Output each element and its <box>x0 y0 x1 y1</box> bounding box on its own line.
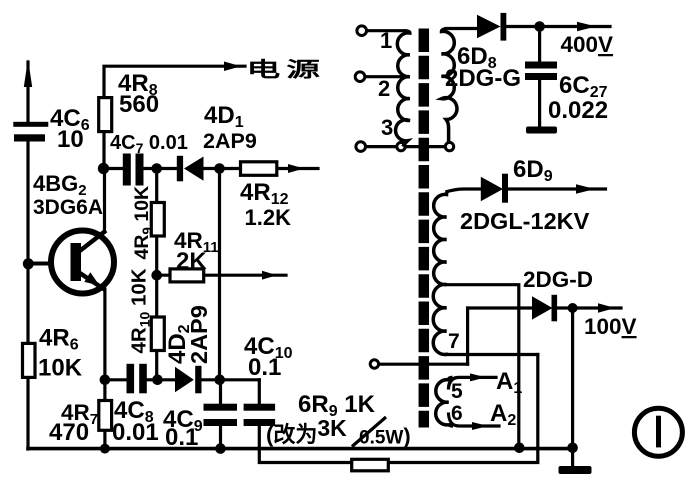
capacitor 4C8 plates <box>127 364 135 394</box>
wire 4D2 to node x219 <box>201 378 220 381</box>
resistor 4R12 1.2K <box>241 162 277 176</box>
svg-text:100V: 100V <box>584 314 637 339</box>
junction 100V node <box>568 303 578 313</box>
capacitor 4C10 plates <box>244 404 276 411</box>
wire riser x467.6 up to 2DG-D row <box>466 308 469 364</box>
svg-text:2: 2 <box>378 76 390 101</box>
wire node x219 to 4C10 top <box>220 378 260 381</box>
wire 6C27 stem top <box>538 27 541 62</box>
capacitors <box>13 62 557 427</box>
svg-text:5: 5 <box>451 380 463 403</box>
diode 6D8 (points right) <box>477 15 501 39</box>
resistor 6R9 <box>352 459 389 471</box>
resistor 4R11 2K <box>170 269 204 282</box>
arrow 电源 (power rail) <box>224 62 241 72</box>
wire 6D9 row right with arrow <box>508 187 606 190</box>
arrow 6D9 output <box>576 184 595 193</box>
wire 4C7 to node x156 <box>141 167 157 170</box>
wire terminal circle to riser x467.6 <box>379 363 468 366</box>
junction node 4C7/4R9 <box>151 163 162 174</box>
wire 4R12 output with arrow <box>277 167 319 170</box>
transformer windings <box>396 29 457 426</box>
terminal small circle mid <box>370 360 378 368</box>
resistors (white body, thick border) <box>23 98 389 471</box>
arrow up at top of left wire <box>24 59 32 87</box>
arrow 4R12 output <box>288 164 304 173</box>
svg-text:0.1: 0.1 <box>165 424 198 451</box>
wire left vertical bottom (4R6 to bus) <box>26 377 29 449</box>
wire t3 lead to winding bottoms <box>366 145 450 148</box>
wire emitter vertical <box>103 289 106 400</box>
wire collector vertical <box>103 169 106 233</box>
wire t2 lead <box>365 75 404 78</box>
junction node 4D1/4R12 <box>214 163 225 174</box>
wire node column x156 segments <box>155 169 158 204</box>
slash in (改为3K/0.5W) <box>352 417 386 447</box>
svg-text:2K: 2K <box>176 248 207 275</box>
arrow 100V output <box>598 303 615 312</box>
wire row y380: emitter node to 4C8 <box>105 378 127 381</box>
junction ring secondary bottom <box>445 142 453 150</box>
svg-text:1.2K: 1.2K <box>245 205 292 230</box>
wire base lead <box>28 262 51 266</box>
wire 4R11 row <box>157 274 171 277</box>
svg-text:4C7 0.01: 4C7 0.01 <box>110 132 188 156</box>
wire node x219 to 4R12 <box>220 167 242 170</box>
wire top rail to power arrow <box>104 66 245 97</box>
diode 4D1 2AP9 (points left) <box>184 157 204 181</box>
wire 6D8 to 400V node and arrow <box>506 25 611 28</box>
junction 4R10/4C8 <box>152 375 163 386</box>
svg-text:0.022: 0.022 <box>548 97 608 124</box>
transistor 4BG2 3DG6A <box>51 231 114 294</box>
junction ring primary bottom <box>397 142 405 150</box>
svg-text:6: 6 <box>451 402 463 425</box>
arrow A2 lead <box>472 422 488 430</box>
ground bar 6C27 <box>526 127 557 134</box>
wire 2DG-D row right with arrow <box>556 306 622 309</box>
wire 4C10 stem top <box>258 380 261 405</box>
junction 4R9/4R11 <box>151 270 162 281</box>
arrow 4R11 output <box>262 271 277 280</box>
wire 4C9 stem top <box>219 380 222 405</box>
terminal circles <box>355 26 453 368</box>
junction 4C9/bus <box>215 443 226 454</box>
wire bottom bus <box>28 447 573 451</box>
wire 4R8 bottom to collector node <box>102 132 105 169</box>
svg-text:560: 560 <box>119 91 159 118</box>
wire 6C27 stem bottom to ground bar <box>538 80 541 128</box>
svg-text:1: 1 <box>380 28 392 53</box>
wire 6D9 row left <box>447 189 481 192</box>
svg-text:2AP9: 2AP9 <box>186 305 212 364</box>
svg-text:4R10 10K: 4R10 10K <box>128 268 153 353</box>
wire row y168: node to 4C7 <box>104 167 124 170</box>
svg-text:7: 7 <box>448 330 460 353</box>
wire node x156 to 4D2 <box>157 378 176 381</box>
svg-text:10K: 10K <box>38 355 83 382</box>
diodes <box>175 13 557 393</box>
secondary winding top (to 6D8) <box>442 29 457 143</box>
capacitor 6C27 plates <box>525 62 557 69</box>
resistor 4R10 10K <box>151 317 164 351</box>
wire 4D1 to node x219 <box>202 167 220 170</box>
svg-text:3DG6A: 3DG6A <box>33 196 103 219</box>
svg-text:10: 10 <box>57 126 84 153</box>
transformer core <box>419 29 430 428</box>
wire lower loop right segment <box>388 355 538 463</box>
svg-text:电源: 电源 <box>247 58 326 81</box>
wire left vertical top (arrow to 4C6) <box>26 62 29 121</box>
diode 4D2 2AP9 (points right) <box>175 367 194 393</box>
wire A1 lead <box>449 377 497 388</box>
wire winding7 top to x518.8 and down to bus <box>446 285 519 449</box>
junction base node <box>23 258 34 269</box>
filament winding 5/6 <box>436 377 453 426</box>
primary winding (terminals 1-2-3) <box>396 31 410 147</box>
svg-text:2DG-G: 2DG-G <box>445 65 521 92</box>
HV winding 2DGL-12KV with section 7 <box>433 192 448 355</box>
junction emitter/4C8 <box>100 375 111 386</box>
wire 4R7 to bus <box>103 430 106 449</box>
terminal 1 <box>357 26 367 36</box>
resistor 4R6 10K <box>23 343 36 377</box>
arrow 400V output <box>577 22 596 31</box>
terminal 2 <box>355 72 365 82</box>
svg-text:2AP9: 2AP9 <box>203 129 257 153</box>
wire 4C10 stem bottom to lower loop <box>259 426 352 463</box>
svg-text:4R9 10K: 4R9 10K <box>131 186 155 260</box>
resistor 4R7 470 <box>99 401 112 431</box>
svg-text:0.5W): 0.5W) <box>359 424 411 449</box>
wire 2DG-D row left <box>468 306 533 309</box>
wire node column x219 <box>218 169 221 380</box>
wire 100V node down to ground <box>571 308 574 466</box>
wire t1 lead <box>367 29 405 32</box>
resistor 4R9 10K <box>151 203 164 237</box>
wire 4C8 to node x156 <box>147 378 157 381</box>
capacitor 4C9 plates <box>204 404 238 411</box>
wire secondary top to 6D8 <box>446 27 478 30</box>
wire left vertical middle (4C6 to 4R6) <box>26 142 29 343</box>
arrow A1 lead <box>470 373 486 381</box>
junction node collector/4C7/4R8 <box>98 163 109 174</box>
svg-text:0.1: 0.1 <box>248 354 281 381</box>
junction 400V node <box>534 21 545 32</box>
junction x518/bus <box>514 443 525 454</box>
junction ground/bus <box>567 443 578 454</box>
figure number circled 1 <box>634 408 682 456</box>
svg-text:3: 3 <box>381 115 393 140</box>
capacitor 4C6 plates <box>13 122 48 127</box>
wire 4C9 stem bottom <box>219 426 222 449</box>
wire winding7 bottom to x537 <box>446 353 538 356</box>
ground bar bottom right <box>559 466 592 474</box>
diode 2DG-D (points right) <box>532 296 553 319</box>
svg-text:400V: 400V <box>561 32 614 57</box>
wire A2 lead <box>449 414 500 426</box>
svg-text:470: 470 <box>49 419 89 446</box>
wire node x156 to 4D1 <box>157 167 177 170</box>
junction 4R7/bus <box>100 444 110 454</box>
terminal 3 <box>356 142 366 152</box>
resistor R 4R8 560 <box>99 98 112 132</box>
svg-text:2DGL-12KV: 2DGL-12KV <box>460 208 590 234</box>
diode 6D9 (points right) <box>481 177 503 201</box>
junction 4D2/4C9 <box>214 375 225 386</box>
capacitor 4C7 plates <box>123 154 131 186</box>
svg-text:0.01: 0.01 <box>112 419 159 446</box>
svg-text:2DG-D: 2DG-D <box>523 267 593 292</box>
